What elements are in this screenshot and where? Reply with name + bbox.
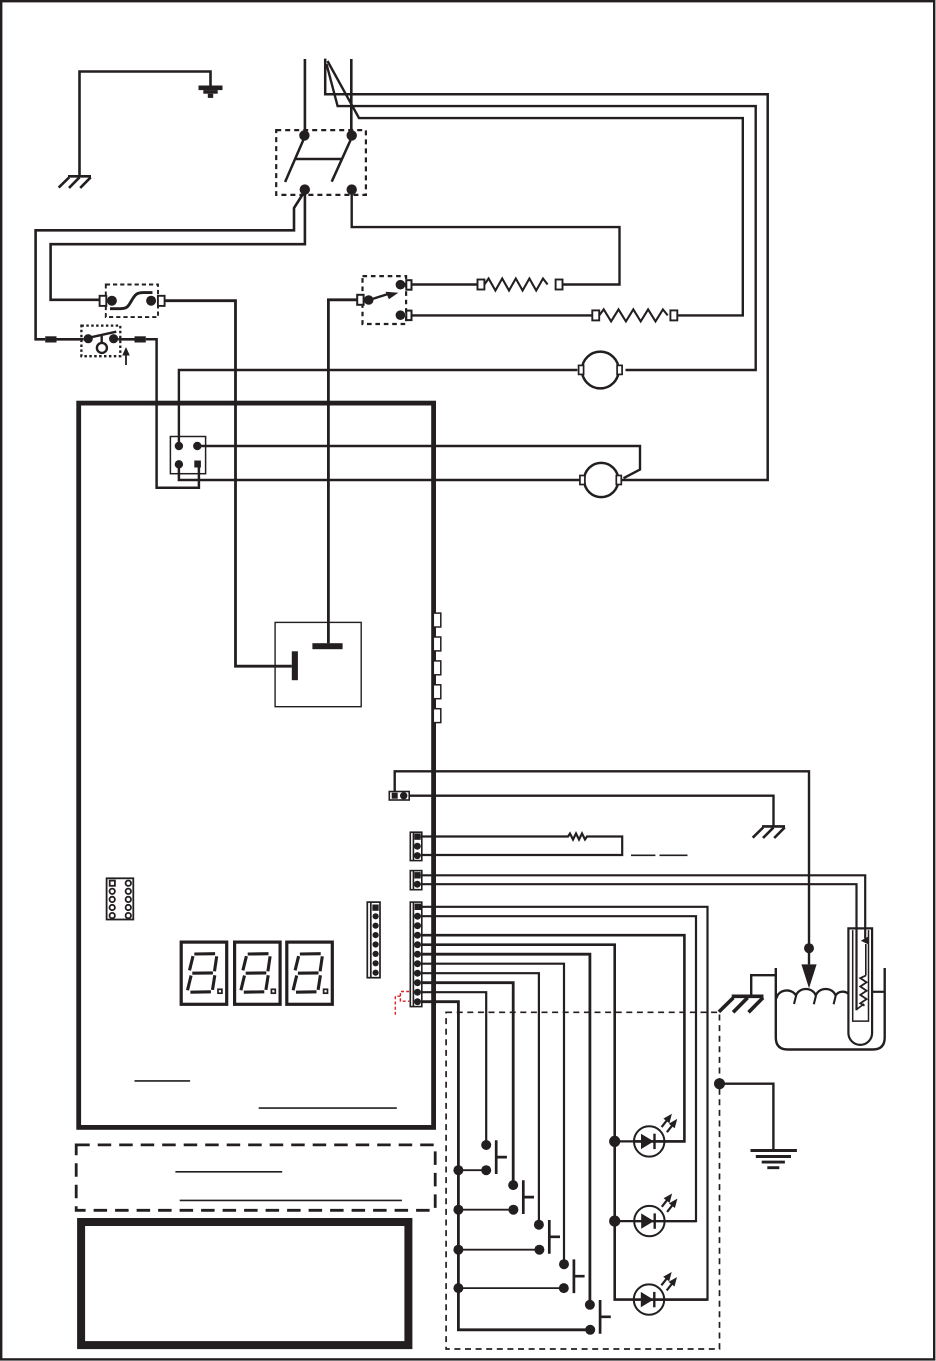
- crimp connector right (solid): [135, 336, 146, 342]
- wire CN6 pin5 LED anode bus: [421, 945, 708, 1300]
- wire CN3 pin2 to chassis ground G2: [409, 796, 773, 827]
- IC connector 2x5: [107, 878, 134, 919]
- dash mark 1: [631, 854, 655, 856]
- thermistor zigzag: [860, 976, 866, 1006]
- resistor R3 loop wire: [421, 834, 623, 856]
- board label underline 1: [135, 1080, 191, 1082]
- wire cord line C to resistor R2: [328, 61, 743, 315]
- S1 contact dot TR: [347, 130, 357, 140]
- S1 blade right: [332, 140, 351, 182]
- wire CN1 pin3 to motor M2 left: [179, 464, 580, 480]
- wire CN1 pin1 to motor M1 left: [179, 370, 578, 446]
- thermistor probe outer tube: [848, 928, 872, 1044]
- electrode plate vertical: [292, 651, 298, 680]
- wire CN6 pin9 to button B2: [421, 983, 513, 1185]
- up arrow annotation: [125, 354, 127, 365]
- connector CN3 (2 pin): [389, 792, 409, 801]
- wire CN1 pin2 to motor M2 right: [197, 446, 640, 478]
- wire S1 BR to resistor R1 loop: [352, 191, 620, 285]
- wire cord line A to motor M2: [325, 59, 768, 480]
- S2 dashed box: [363, 276, 407, 324]
- wire keypad to earth ground: [720, 1084, 774, 1151]
- wire cord line B to motor M1: [327, 64, 756, 370]
- button B3: [534, 1220, 544, 1230]
- LED3: [634, 1284, 664, 1314]
- electrode plate horizontal (T): [312, 643, 342, 649]
- S1 contact dot BL: [300, 184, 310, 194]
- legend underline 2: [180, 1199, 402, 1201]
- CN1 pin2 dot: [193, 442, 201, 450]
- wire squares to dots: [57, 338, 84, 341]
- board label underline 2: [259, 1107, 397, 1109]
- junction dot on electrode wire: [804, 943, 814, 953]
- tank body: [776, 968, 885, 1050]
- wire from chassis ground up and right to cord arrow: [80, 72, 211, 177]
- earth ground symbol: [751, 1151, 797, 1168]
- CN1 pin4 square: [194, 461, 201, 468]
- F1 left terminal: [100, 296, 107, 306]
- S2 left terminal: [357, 295, 363, 305]
- M1 left terminal: [579, 365, 584, 374]
- tank ground stub wire: [751, 975, 776, 996]
- probe inner sleeve: [853, 930, 869, 1021]
- thermistor contact blob: [861, 936, 869, 944]
- CN2 pins 2-8: [373, 913, 379, 919]
- red service annotation: [395, 992, 409, 1015]
- S1 mechanical link bar: [296, 158, 342, 161]
- button B5: [585, 1300, 595, 1310]
- wire F1 to spark-plate (into board): [165, 301, 292, 667]
- S2 common dot: [364, 295, 374, 305]
- M2 right terminal: [616, 476, 621, 485]
- wire CN6 pin10 to button B1: [421, 992, 486, 1145]
- S2 top contact dot: [396, 280, 406, 290]
- water surface waves: [777, 989, 849, 999]
- wire CN3 pin1 to electrode: [395, 771, 809, 964]
- LED bus stub to LED1: [615, 1140, 685, 1142]
- wire cord pole L: [304, 59, 307, 132]
- LED bus junction dot 1: [609, 1136, 620, 1147]
- wire CN6 pin1 to LED3 return: [421, 907, 708, 1300]
- CN5 pin1 square: [414, 872, 420, 878]
- M1 right terminal: [617, 365, 622, 374]
- cord arrow (down arrow to power cord): [199, 86, 223, 98]
- TH1 contact dot left: [84, 334, 93, 343]
- CN3 pin2 dot: [400, 792, 407, 799]
- TH1 sensor circle: [97, 343, 107, 353]
- dashed legend box: [76, 1145, 435, 1210]
- wire S2 top to resistor R1: [412, 283, 478, 285]
- S2 bottom contact dot: [396, 310, 406, 320]
- electrode arrow head: [801, 964, 816, 988]
- TH1 blade: [89, 332, 117, 338]
- CN1 pin3 dot: [175, 460, 183, 468]
- CN6 pins 2-11: [414, 913, 421, 920]
- CN4 pin3 dot: [414, 852, 421, 859]
- wire CN6 pin6 to button B5: [421, 954, 590, 1305]
- S1 contact dot BR: [347, 184, 357, 194]
- TH1 contact dot right: [109, 334, 118, 343]
- M2 left terminal: [580, 476, 585, 485]
- CN6 pin1 square: [415, 904, 421, 910]
- 7-segment display digit 1: [181, 942, 227, 1004]
- wire CN5 pin1 to probe lead right: [421, 875, 866, 938]
- wire CN6 pin11 keypad common: [421, 1002, 590, 1330]
- button B1: [481, 1140, 491, 1150]
- wire S1 BL to thermal fuse branch: [51, 191, 305, 300]
- wire cord pole N: [350, 59, 353, 132]
- thermistor bottom bend: [857, 1004, 865, 1010]
- wire thermostat to connector CN1 pin4: [146, 339, 199, 488]
- S1 blade left: [285, 139, 304, 182]
- CN4 pin2 dot: [414, 843, 421, 850]
- fuse F1 dashed box: [106, 285, 158, 318]
- water surface right of probe: [872, 991, 885, 993]
- button B4: [559, 1259, 569, 1269]
- S2 right terminal top: [406, 280, 411, 290]
- chassis ground G3: [719, 996, 764, 1012]
- thermostat dotted box: [81, 326, 120, 357]
- legend underline 1: [175, 1171, 282, 1173]
- chassis ground G2: [753, 826, 785, 838]
- F1 contact dot left: [107, 296, 117, 306]
- chassis ground G1: [59, 176, 91, 188]
- switch S1 dashed box: [276, 130, 366, 195]
- LED1: [634, 1126, 664, 1156]
- 7-segment display digit 2: [235, 942, 281, 1004]
- S2 blade arrow: [371, 294, 388, 300]
- dash mark 2: [660, 854, 688, 856]
- LED bus stub to LED2: [615, 1220, 696, 1222]
- wire CN6 pin4 to LED1 return: [421, 935, 684, 1141]
- CN1 pin1 dot: [175, 442, 183, 450]
- keypad dashed box: [446, 1012, 719, 1349]
- wire S1 BL to thermostat branch: [36, 191, 305, 339]
- LED2: [634, 1206, 664, 1236]
- CN1 box: [170, 437, 205, 474]
- F1 contact dot right: [146, 296, 156, 306]
- F1 fuse S-curve element: [110, 293, 153, 309]
- S1 contact dot TL: [299, 130, 309, 140]
- 8-pin connector CN2: [367, 902, 380, 978]
- F1 right terminal: [158, 296, 165, 306]
- LED bus junction dot 2: [609, 1216, 620, 1227]
- crimp connector left (solid): [45, 336, 56, 342]
- wire S2 bottom to resistor R2: [412, 314, 593, 316]
- button B2: [508, 1180, 518, 1190]
- CN5 pin2 dot: [414, 881, 421, 888]
- wire CN5 pin2 to probe lead left: [421, 884, 857, 1010]
- thermistor element lead: [865, 944, 867, 976]
- wire CN6 pin8 to button B3: [421, 973, 539, 1224]
- title block thick box: [81, 1222, 408, 1345]
- wire CN6 pin7 to button B4: [421, 964, 564, 1264]
- wire S2 common to spark-plate vertical: [328, 300, 357, 643]
- wire CN6 pin2 to LED2 return: [421, 916, 696, 1221]
- CN3 pin1 square: [392, 793, 398, 799]
- S2 right terminal bottom: [406, 311, 411, 321]
- 7-segment display digit 3: [287, 942, 333, 1004]
- CN4 pin1 square: [414, 833, 420, 839]
- board edge tabs (5): [433, 613, 441, 627]
- keypad ground junction dot: [714, 1078, 725, 1089]
- module box: [275, 622, 361, 706]
